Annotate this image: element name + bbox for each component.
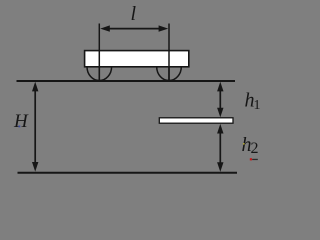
extension line right (from l-dimension down through cart to table) bbox=[168, 24, 170, 81]
artifact: red dot and dash under h2 subscript bbox=[250, 158, 252, 160]
svg-text:1: 1 bbox=[254, 98, 261, 113]
table line bbox=[17, 80, 236, 82]
cart body bbox=[85, 51, 189, 67]
artifact: yellow dot near h2 bbox=[243, 143, 245, 145]
dimension arrow h2 bbox=[217, 124, 223, 172]
plate bbox=[159, 118, 233, 123]
dimension arrow H bbox=[32, 82, 38, 172]
svg-text:l: l bbox=[131, 3, 137, 25]
axle line right bbox=[168, 51, 170, 81]
dimension arrow l bbox=[100, 25, 168, 31]
svg-text:2: 2 bbox=[251, 140, 259, 157]
extension line left (from l-dimension down through cart to table) bbox=[98, 24, 100, 81]
ground line bbox=[18, 172, 238, 174]
wheel right bbox=[157, 67, 182, 81]
dimension arrow h1 bbox=[217, 82, 223, 118]
wheel left bbox=[87, 67, 112, 81]
svg-text:H: H bbox=[13, 111, 29, 132]
axle line left bbox=[98, 51, 100, 81]
artifact: blue dot under H bbox=[19, 126, 21, 128]
